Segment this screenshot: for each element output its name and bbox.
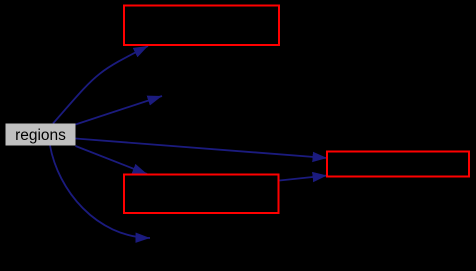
svg-text:regions: regions — [15, 127, 66, 144]
